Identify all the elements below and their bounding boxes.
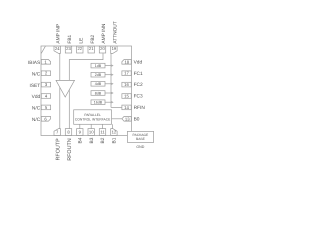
svg-text:RFOUTP: RFOUTP bbox=[56, 138, 62, 161]
svg-text:IBIAS: IBIAS bbox=[28, 60, 40, 66]
svg-text:ATTNOUT: ATTNOUT bbox=[113, 21, 119, 43]
pin 5 box bbox=[41, 105, 50, 110]
pin 2 box bbox=[41, 71, 50, 76]
pin 18 box bbox=[122, 59, 131, 64]
chip outline U1 bbox=[41, 46, 132, 136]
pin 24 box bbox=[54, 46, 60, 53]
pin 12 box bbox=[111, 129, 117, 136]
svg-text:AMP INP: AMP INP bbox=[56, 24, 62, 44]
parallel control interface block bbox=[74, 110, 112, 125]
attenuator block 4dB bbox=[91, 82, 114, 87]
wire B4 to control interface bbox=[79, 124, 81, 129]
attenuator block 8dB bbox=[91, 91, 114, 96]
svg-text:13: 13 bbox=[125, 116, 130, 121]
package base exposed pad block bbox=[127, 131, 153, 142]
svg-text:21: 21 bbox=[89, 46, 94, 51]
pin 23 box bbox=[65, 46, 71, 53]
svg-text:B0: B0 bbox=[134, 116, 140, 122]
attenuator block 2dB bbox=[91, 72, 114, 77]
svg-text:Vdd: Vdd bbox=[32, 94, 41, 100]
svg-text:16: 16 bbox=[124, 82, 129, 87]
svg-text:N/C: N/C bbox=[32, 71, 41, 77]
svg-text:BASE: BASE bbox=[136, 137, 146, 141]
wire B3 to control interface bbox=[90, 124, 92, 129]
svg-text:1dB: 1dB bbox=[95, 64, 102, 68]
pin 9 box bbox=[77, 129, 83, 136]
pin 19 box bbox=[111, 46, 117, 53]
pin 3 box bbox=[41, 82, 50, 87]
pin 14 box bbox=[122, 105, 131, 110]
svg-text:GND: GND bbox=[136, 145, 144, 149]
svg-text:2dB: 2dB bbox=[95, 73, 102, 77]
svg-text:12: 12 bbox=[112, 130, 117, 135]
svg-text:FC3: FC3 bbox=[134, 94, 143, 100]
wire RFIN to attenuator bus bbox=[111, 106, 122, 108]
svg-text:B1: B1 bbox=[112, 137, 118, 143]
pin 21 box bbox=[88, 46, 94, 53]
svg-text:19: 19 bbox=[112, 46, 117, 51]
svg-text:LE: LE bbox=[78, 38, 84, 44]
svg-text:22: 22 bbox=[77, 46, 82, 51]
attenuator block 16dB bbox=[91, 100, 114, 105]
pin 11 box bbox=[99, 129, 105, 136]
svg-text:17: 17 bbox=[124, 71, 129, 76]
attenuator block 1dB bbox=[91, 63, 114, 68]
op-amp A1 triangle bbox=[56, 80, 75, 97]
pin 10 box bbox=[88, 129, 94, 136]
svg-text:FC2: FC2 bbox=[134, 82, 143, 88]
svg-text:24: 24 bbox=[55, 46, 60, 51]
svg-text:15: 15 bbox=[124, 93, 129, 98]
svg-text:N/C: N/C bbox=[32, 106, 41, 112]
svg-text:4dB: 4dB bbox=[95, 82, 102, 86]
svg-text:AMP INN: AMP INN bbox=[101, 23, 107, 43]
svg-text:10: 10 bbox=[89, 130, 94, 135]
svg-text:B3: B3 bbox=[89, 137, 95, 143]
svg-text:ISET: ISET bbox=[30, 83, 41, 89]
pin 7 box bbox=[54, 129, 60, 136]
wire AMP INP to amplifier input bbox=[59, 53, 61, 129]
svg-text:16dB: 16dB bbox=[94, 101, 103, 105]
svg-text:RFIN: RFIN bbox=[134, 105, 146, 111]
chamfer corner pin1 indicator bbox=[41, 46, 45, 53]
svg-text:PARALLEL: PARALLEL bbox=[84, 113, 101, 117]
svg-text:B2: B2 bbox=[100, 137, 106, 143]
svg-text:8dB: 8dB bbox=[95, 91, 102, 95]
svg-text:RFOUTN: RFOUTN bbox=[67, 138, 73, 161]
svg-text:23: 23 bbox=[66, 46, 71, 51]
svg-text:FB2: FB2 bbox=[90, 34, 96, 43]
wire B1 to control interface bbox=[112, 124, 114, 129]
pin 6 box bbox=[41, 116, 50, 121]
svg-text:FC1: FC1 bbox=[134, 71, 143, 77]
attenuator chain bus from ATTNOUT bbox=[110, 53, 112, 107]
svg-text:CONTROL INTERFACE: CONTROL INTERFACE bbox=[75, 117, 111, 121]
wire B0 to control interface bbox=[112, 118, 123, 120]
pin 20 box bbox=[99, 46, 105, 53]
svg-text:20: 20 bbox=[100, 46, 105, 51]
svg-text:11: 11 bbox=[100, 130, 105, 135]
pin 4 box bbox=[41, 93, 50, 98]
svg-text:B4: B4 bbox=[77, 137, 83, 143]
svg-text:14: 14 bbox=[124, 105, 129, 110]
pin 17 box bbox=[122, 71, 131, 76]
pin 15 box bbox=[122, 93, 131, 98]
svg-text:18: 18 bbox=[124, 59, 129, 64]
svg-text:Vdd: Vdd bbox=[134, 59, 143, 65]
svg-text:FB1: FB1 bbox=[67, 34, 73, 43]
wire B2 to control interface bbox=[102, 124, 104, 129]
wire AMP INN feedback: down, left, down to amplifier bbox=[69, 53, 103, 129]
pin 22 box bbox=[77, 46, 83, 53]
pin 13 box bbox=[122, 116, 131, 121]
svg-text:N/C: N/C bbox=[32, 117, 41, 123]
pin 16 box bbox=[122, 82, 131, 87]
pin 8 box bbox=[65, 129, 71, 136]
pin 1 box bbox=[41, 59, 50, 64]
